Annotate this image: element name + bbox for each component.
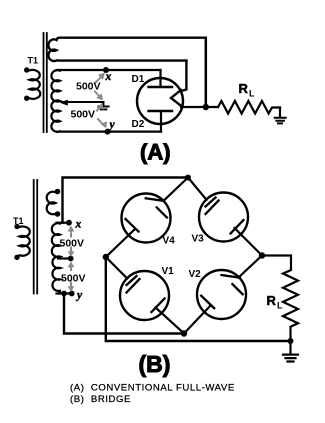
- svg-text:500V: 500V: [76, 80, 101, 92]
- svg-text:(A): (A): [140, 140, 171, 165]
- svg-text:L: L: [277, 301, 283, 311]
- svg-text:y: y: [75, 290, 83, 302]
- svg-text:500V: 500V: [71, 108, 96, 120]
- svg-text:(B) BRIDGE: (B) BRIDGE: [70, 394, 131, 405]
- svg-text:V3: V3: [192, 234, 205, 245]
- svg-text:V4: V4: [163, 236, 176, 247]
- svg-text:500V: 500V: [61, 273, 86, 285]
- svg-text:D2: D2: [132, 119, 145, 130]
- svg-text:R: R: [267, 293, 277, 308]
- svg-text:x: x: [75, 219, 82, 231]
- svg-text:R: R: [239, 81, 249, 96]
- svg-text:L: L: [249, 89, 255, 99]
- svg-text:x: x: [105, 71, 112, 83]
- svg-text:500V: 500V: [60, 238, 85, 250]
- svg-text:(B): (B): [139, 351, 171, 377]
- svg-text:V1: V1: [162, 266, 175, 277]
- svg-text:(A) CONVENTIONAL FULL-WAVE: (A) CONVENTIONAL FULL-WAVE: [70, 383, 235, 394]
- svg-text:y: y: [108, 119, 116, 131]
- svg-text:V2: V2: [189, 269, 202, 280]
- svg-text:T1: T1: [13, 216, 24, 226]
- svg-text:D1: D1: [132, 74, 145, 85]
- svg-text:T1: T1: [28, 56, 39, 66]
